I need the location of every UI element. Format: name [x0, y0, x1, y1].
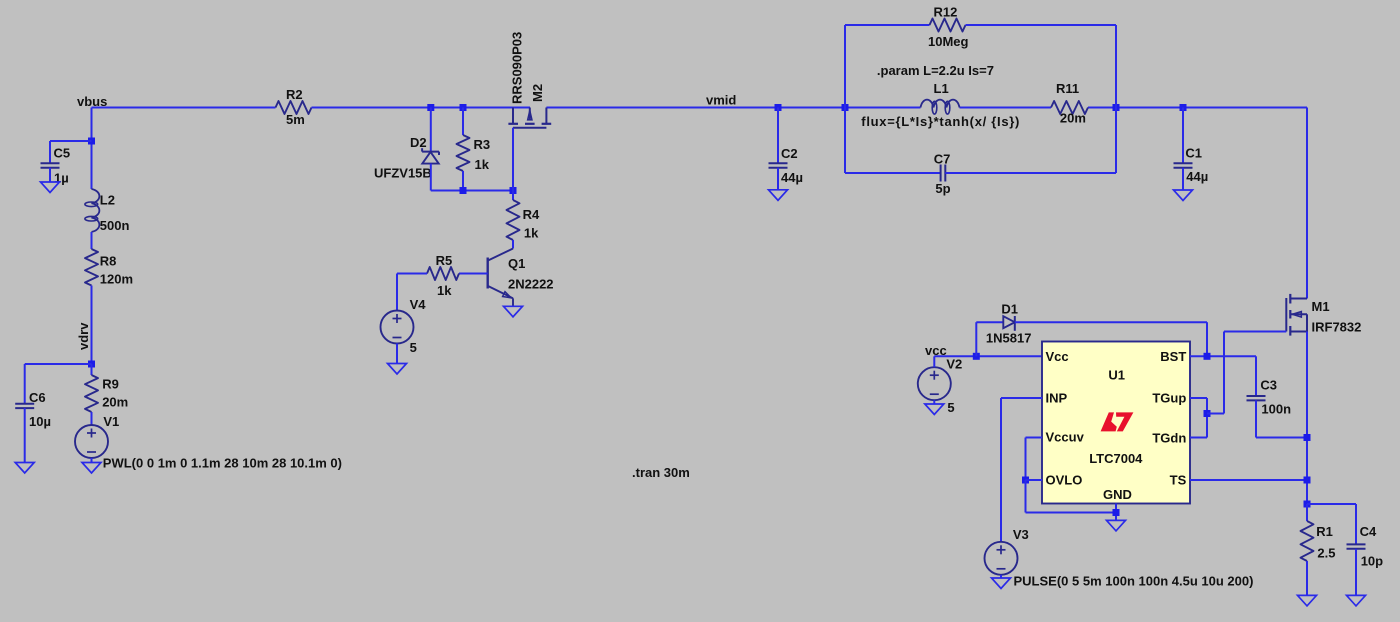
ground V4 [388, 364, 407, 375]
svg-text:C6: C6 [29, 390, 46, 405]
svg-text:1N5817: 1N5817 [986, 331, 1032, 346]
wire L2 to R8 [91, 232, 93, 249]
svg-text:5: 5 [410, 340, 417, 355]
svg-text:INP: INP [1046, 391, 1068, 406]
svg-text:120m: 120m [100, 272, 133, 287]
inductor L2 [92, 189, 100, 232]
svg-text:D2: D2 [410, 135, 427, 150]
capacitor C5 [41, 162, 60, 164]
svg-text:PWL(0 0 1m 0 1.1m 28 10m 28 10: PWL(0 0 1m 0 1.1m 28 10m 28 10.1m 0) [103, 456, 342, 471]
svg-text:TGup: TGup [1152, 391, 1186, 406]
svg-text:C2: C2 [781, 146, 798, 161]
capacitor C2 [769, 162, 788, 164]
resistor R5 [427, 267, 459, 280]
wire D2 anode lead [430, 108, 432, 152]
wire TS [1190, 479, 1307, 481]
wire bus L1 to R11 [960, 107, 1052, 109]
wire vdrv to C6 [25, 363, 92, 365]
svg-text:V2: V2 [946, 357, 962, 372]
svg-text:C3: C3 [1260, 378, 1277, 393]
svg-text:20m: 20m [102, 395, 128, 410]
wire R1 to ground [1306, 561, 1308, 595]
ground C2 [769, 190, 788, 201]
capacitor C4 [1347, 543, 1366, 545]
svg-text:20m: 20m [1060, 111, 1086, 126]
wire BST to C3 [1190, 355, 1256, 357]
wire loop right vertical [1115, 25, 1117, 173]
svg-text:vmid: vmid [706, 93, 736, 108]
junction C3-source [1304, 434, 1311, 441]
svg-text:1k: 1k [437, 283, 452, 298]
svg-text:OVLO: OVLO [1046, 473, 1083, 488]
svg-text:Vcc: Vcc [1046, 349, 1069, 364]
wire OVLO to GND row [1025, 480, 1027, 513]
junction source-R1 [1304, 501, 1311, 508]
wire loop left vertical [844, 25, 846, 173]
svg-text:D1: D1 [1001, 302, 1018, 317]
wire V3 to ground [1000, 575, 1002, 578]
svg-text:1k: 1k [475, 157, 490, 172]
junction gate row R4 [510, 187, 517, 194]
svg-text:TS: TS [1170, 473, 1187, 488]
wire to C4 [1307, 503, 1356, 505]
svg-text:Q1: Q1 [508, 256, 525, 271]
wire D1 cathode to BST riser [1015, 321, 1207, 323]
svg-text:GND: GND [1103, 487, 1132, 502]
capacitor C1 [1174, 162, 1193, 164]
wire V4 to ground [396, 344, 398, 364]
svg-text:44µ: 44µ [1186, 169, 1208, 184]
ground C4 [1347, 595, 1366, 606]
ground C6 [15, 463, 34, 474]
junction bus-R3 [460, 104, 467, 111]
svg-text:L1: L1 [934, 81, 949, 96]
svg-text:IRF7832: IRF7832 [1312, 320, 1362, 335]
ground V1 [82, 463, 101, 474]
wire TGdn [1190, 437, 1207, 439]
svg-text:.tran 30m: .tran 30m [632, 465, 690, 480]
wire Q1 base [459, 273, 488, 275]
resistor R9 [91, 364, 93, 375]
svg-text:.param L=2.2u Is=7: .param L=2.2u Is=7 [877, 63, 994, 78]
junction BST [1204, 353, 1211, 360]
resistor R8 [85, 249, 98, 286]
svg-text:V1: V1 [103, 414, 119, 429]
wire loop top left [845, 24, 930, 26]
svg-text:5m: 5m [286, 112, 305, 127]
svg-text:C5: C5 [54, 146, 71, 161]
svg-text:M2: M2 [530, 84, 545, 102]
ground Q1 emitter [504, 306, 523, 317]
resistor R4 [512, 191, 514, 201]
svg-text:1k: 1k [524, 226, 539, 241]
svg-text:V3: V3 [1013, 527, 1029, 542]
svg-text:R4: R4 [523, 207, 540, 222]
wire V1 to ground [91, 458, 93, 463]
svg-text:R5: R5 [436, 253, 453, 268]
wire C3 top lead [1255, 356, 1257, 396]
wire R3 top lead [462, 108, 464, 136]
wire R8 to vdrv [91, 286, 93, 365]
ground C5 [41, 182, 60, 193]
wire M2 gate down [512, 128, 514, 191]
wire V2 top [933, 356, 935, 367]
wire loop top right [966, 24, 1117, 26]
junction gate row R3 [460, 187, 467, 194]
wire TGup [1190, 397, 1207, 399]
svg-text:10Meg: 10Meg [928, 34, 969, 49]
op-amp U1 LTC7004 body [1042, 342, 1190, 504]
voltage source V2 [918, 367, 951, 400]
svg-text:C4: C4 [1360, 524, 1377, 539]
wire M1 source down [1306, 332, 1308, 505]
wire C6 to ground [24, 408, 26, 462]
wire C3 bottom [1255, 400, 1257, 437]
wire loop bottom right [945, 172, 1116, 174]
svg-text:500n: 500n [100, 218, 130, 233]
svg-text:R1: R1 [1316, 524, 1333, 539]
LT logo [1101, 412, 1117, 431]
svg-text:C7: C7 [934, 152, 951, 167]
diode D2 zener [422, 151, 439, 153]
wire M1 gate [1224, 331, 1286, 333]
junction bus-C1 [1180, 104, 1187, 111]
svg-text:R3: R3 [474, 137, 491, 152]
svg-text:5p: 5p [935, 181, 950, 196]
svg-text:2N2222: 2N2222 [508, 277, 554, 292]
ground R1 [1298, 595, 1317, 606]
wire V2 to ground [933, 400, 935, 404]
wire bus R2 to M2 [312, 107, 531, 109]
svg-text:LTC7004: LTC7004 [1089, 451, 1143, 466]
svg-text:V4: V4 [410, 297, 427, 312]
svg-text:R11: R11 [1056, 81, 1079, 96]
svg-text:TGdn: TGdn [1152, 431, 1186, 446]
svg-text:10µ: 10µ [29, 414, 51, 429]
junction loop right [1113, 104, 1120, 111]
wire C2 to ground [777, 168, 779, 190]
junction vdrv [88, 361, 95, 368]
svg-text:Vccuv: Vccuv [1046, 430, 1085, 445]
wire R9 to V1 [91, 412, 93, 425]
svg-text:flux={L*Is}*tanh(x/ {Is}): flux={L*Is}*tanh(x/ {Is}) [861, 114, 1020, 129]
wire loop bottom left [845, 172, 941, 174]
resistor R1 [1306, 504, 1308, 521]
svg-text:2.5: 2.5 [1317, 546, 1335, 561]
junction vcc-D1 [973, 353, 980, 360]
wire Vccuv [1026, 437, 1043, 439]
resistor R3 [457, 135, 470, 171]
wire C1 lead [1182, 108, 1184, 164]
ground U1 GND [1107, 520, 1126, 531]
resistor R12 [930, 19, 966, 32]
ground C1 [1174, 190, 1193, 201]
voltage source V3 [985, 542, 1018, 575]
wire C5 tap [50, 140, 92, 142]
wire bus M2 to loop [546, 107, 920, 109]
transistor Q1 [487, 258, 489, 289]
wire vcc row [934, 355, 1042, 357]
wire C4 to ground [1355, 549, 1357, 596]
ground V2 [925, 404, 944, 415]
svg-text:44µ: 44µ [781, 170, 803, 185]
voltage source V4 [381, 311, 414, 344]
resistor R11 [1051, 101, 1088, 114]
wire vbus vertical [91, 108, 93, 142]
svg-text:R12: R12 [934, 5, 958, 20]
wire bus corner down to M1 drain [1306, 108, 1308, 299]
svg-text:1µ: 1µ [54, 171, 69, 186]
svg-text:100n: 100n [1261, 402, 1291, 417]
junction TG tie [1204, 410, 1211, 417]
resistor R2 [276, 101, 312, 114]
transistor M2 [512, 108, 514, 124]
svg-text:R8: R8 [100, 254, 117, 269]
svg-text:L2: L2 [100, 193, 115, 208]
svg-text:BST: BST [1160, 349, 1186, 364]
wire D1 anode riser [975, 322, 977, 356]
svg-text:R9: R9 [102, 377, 119, 392]
wire INP to V3 [1001, 397, 1042, 399]
wire bus R11 to corner [1088, 107, 1307, 109]
svg-text:RRS090P03: RRS090P03 [510, 32, 525, 104]
ground V3 [992, 578, 1011, 589]
svg-text:M1: M1 [1312, 299, 1330, 314]
transistor M1 [1285, 298, 1287, 332]
junction vbus-C5 [88, 138, 95, 145]
junction bus-D2 [427, 104, 434, 111]
svg-text:10p: 10p [1361, 554, 1383, 569]
wire OVLO [1026, 479, 1043, 481]
capacitor C3 [1247, 395, 1266, 397]
wire vbus bus left segment [92, 107, 276, 109]
junction loop left [842, 104, 849, 111]
svg-text:vdrv: vdrv [76, 322, 91, 350]
junction vmid-C2 [775, 104, 782, 111]
diode D1 [1003, 316, 1015, 328]
wire D2 to gate row [430, 164, 432, 191]
junction TS-source [1304, 477, 1311, 484]
wire GND pin stub [1115, 504, 1117, 521]
inductor L1 [921, 100, 960, 108]
svg-text:R2: R2 [286, 87, 303, 102]
junction GND [1113, 509, 1120, 516]
capacitor C6 [15, 403, 34, 405]
wire R3 bottom lead [462, 171, 464, 191]
svg-text:PULSE(0 5 5m 100n 100n 4.5u 10: PULSE(0 5 5m 100n 100n 4.5u 10u 200) [1014, 574, 1254, 589]
svg-text:UFZV15B: UFZV15B [374, 166, 432, 181]
capacitor C7 [940, 165, 942, 182]
wire V4 to R5 [397, 273, 427, 275]
wire C5 to ground [49, 168, 51, 182]
wire R4 to Q1 collector [512, 240, 514, 249]
svg-text:5: 5 [947, 400, 954, 415]
junction OVLO [1022, 477, 1029, 484]
wire C1 to ground [1182, 168, 1184, 190]
svg-text:C1: C1 [1185, 146, 1202, 161]
wire TG to gate riser [1207, 413, 1224, 415]
svg-text:U1: U1 [1108, 368, 1125, 383]
wire C2 lead [777, 108, 779, 164]
voltage source V1 [75, 425, 108, 458]
